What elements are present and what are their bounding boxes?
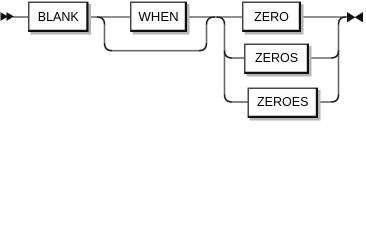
svg-text:BLANK: BLANK [38,10,80,24]
svg-text:ZERO: ZERO [254,10,289,24]
svg-text:ZEROES: ZEROES [257,95,308,109]
svg-text:ZEROS: ZEROS [255,51,298,65]
svg-text:WHEN: WHEN [138,9,178,24]
